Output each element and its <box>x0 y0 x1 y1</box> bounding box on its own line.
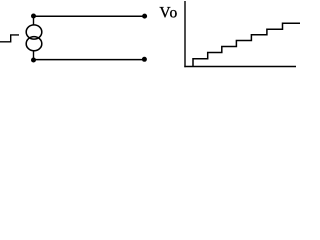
wire top rail <box>34 15 145 17</box>
node top-left junction dot <box>31 14 36 19</box>
current source I (two overlapping circles) <box>26 25 42 51</box>
plot x-axis <box>184 66 296 68</box>
wire bottom stub <box>33 51 35 60</box>
step input signal symbol <box>0 35 19 42</box>
svg-text:Vo: Vo <box>159 4 178 21</box>
terminal top-right dot <box>142 14 147 19</box>
staircase waveform Vo(t) <box>193 23 300 66</box>
terminal bottom-right dot <box>142 57 147 62</box>
wire bottom rail <box>34 59 145 61</box>
plot y-axis <box>184 1 186 67</box>
wire top stub <box>33 16 35 25</box>
node bottom-left junction dot <box>31 58 36 63</box>
